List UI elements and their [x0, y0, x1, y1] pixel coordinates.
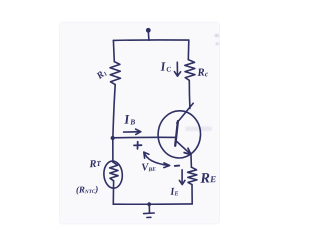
transistor Q1 emitter arrowhead — [184, 148, 191, 154]
wire RC to collector — [188, 80, 191, 108]
faint bleed-through text in transistor — [185, 127, 212, 132]
thermistor RT envelope — [103, 160, 123, 188]
wire R1 to base junction — [113, 85, 115, 138]
paper background — [60, 22, 220, 224]
vbe measurement arc — [144, 153, 168, 166]
plus sign — [134, 142, 142, 149]
node base junction — [111, 136, 115, 140]
resistor RE — [188, 167, 197, 184]
current arrow IC — [174, 62, 180, 76]
resistor RC — [185, 60, 195, 81]
transistor Q1 collector stroke — [177, 103, 193, 123]
minus sign near emitter — [175, 165, 179, 167]
svg-text:Rc: Rc — [196, 66, 209, 79]
wire RT to bottom — [112, 181, 114, 204]
transistor Q1 envelope — [157, 110, 202, 159]
transistor Q1 emitter stroke — [176, 141, 191, 155]
resistor R1 — [110, 62, 121, 85]
supply terminal dot — [146, 28, 151, 33]
wire bottom horizontal — [113, 203, 192, 205]
wire base — [113, 136, 176, 138]
thermistor RT body — [110, 162, 119, 181]
wire top horizontal — [113, 39, 188, 41]
ground — [144, 202, 155, 217]
wire left rail upper — [112, 40, 115, 61]
transistor Q1 base bar — [175, 121, 178, 146]
supply terminal stub — [147, 33, 150, 41]
wire emitter to RE — [190, 155, 192, 167]
wire right rail upper — [187, 40, 190, 60]
faint bleed-through text top right — [215, 34, 220, 45]
wire junction to RT — [112, 138, 114, 162]
current arrow IB — [124, 129, 141, 134]
current arrow IE — [179, 170, 185, 185]
wire RE to bottom corner — [191, 185, 193, 204]
